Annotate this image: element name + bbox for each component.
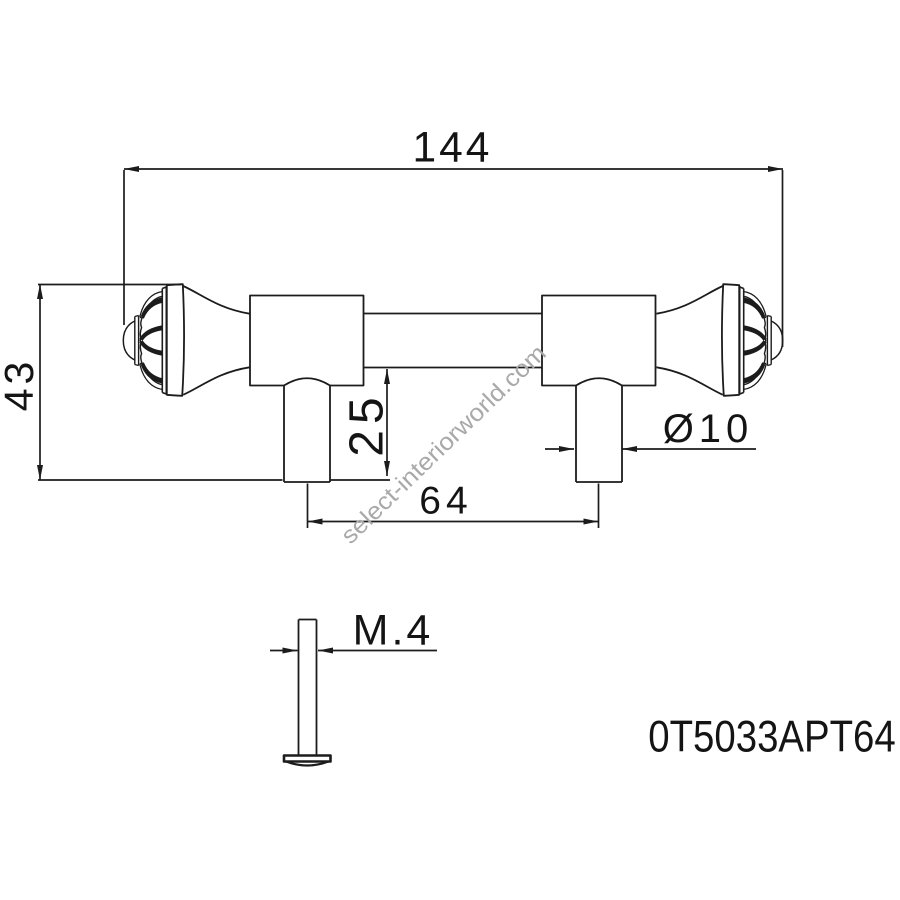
handle bar top edge [364,313,543,315]
wire dim-43 extension bottom [38,479,390,481]
arrow 144 right [768,166,783,172]
finial petal tips [140,317,142,364]
svg-text:64: 64 [419,480,472,523]
arrow 43 bottom [37,465,43,480]
arrow M4 right [318,648,333,654]
arrow 25 bottom [384,461,390,476]
arrow M4 left [283,648,298,654]
svg-text:43: 43 [0,358,42,412]
finial band [167,284,184,396]
screw head [284,756,331,762]
handle left finial [123,284,249,396]
wire dim-144 extension right [782,170,784,347]
screw head bottom arc [286,762,329,766]
arrow 144 left [124,166,139,172]
wire dim-144 line [124,168,783,170]
arrow 64 left [308,519,323,525]
wire dim-25 line [386,369,388,476]
wire dim-43 extension top [38,284,181,286]
arrow 43 top [37,284,43,299]
right post cylinder [576,386,622,483]
finial dome [123,321,135,360]
right post fillet arc [576,378,622,385]
wire dim-43 line [39,284,41,480]
left post cylinder [284,386,330,483]
svg-text:M.4: M.4 [353,607,434,655]
svg-text:144: 144 [413,125,493,172]
screw shaft [299,620,317,756]
finial dome collar [135,316,139,366]
finial petal top curl [140,292,162,318]
svg-text:25: 25 [341,391,394,456]
left post block [250,296,364,386]
wire M4 leader [270,650,437,652]
arrow 25 top [384,369,390,384]
wire dim-64 line [308,521,599,523]
finial petal bottom curl [140,363,162,389]
handle bar bottom edge [364,367,543,369]
finial petal spokes [140,298,163,383]
finial bell top [183,286,249,314]
wire dim-64 extension right [598,484,600,529]
svg-text:0T5033APT64: 0T5033APT64 [648,711,895,761]
finial collar strip [162,286,166,395]
arrow 64 right [584,519,599,525]
right post block [542,296,656,386]
arrow dia10 left [559,446,574,452]
handle right finial (mirror) [657,284,783,396]
svg-text:Ø10: Ø10 [663,407,754,451]
arrow dia10 right [622,446,637,452]
wire dia10 leader [545,448,756,450]
wire dim-144 extension left [123,170,125,325]
finial bell bottom [183,367,249,395]
left post fillet arc [284,378,330,385]
wire dim-64 extension left [307,484,309,529]
